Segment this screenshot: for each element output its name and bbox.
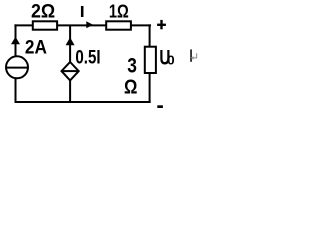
svg-text:Ω: Ω (124, 75, 137, 98)
svg-text:0: 0 (167, 52, 175, 67)
svg-text:1Ω: 1Ω (109, 1, 129, 22)
svg-text:0.5I: 0.5I (75, 46, 100, 68)
svg-text:2Ω: 2Ω (31, 0, 55, 22)
svg-text:I: I (80, 3, 85, 21)
svg-text:2A: 2A (25, 36, 47, 58)
